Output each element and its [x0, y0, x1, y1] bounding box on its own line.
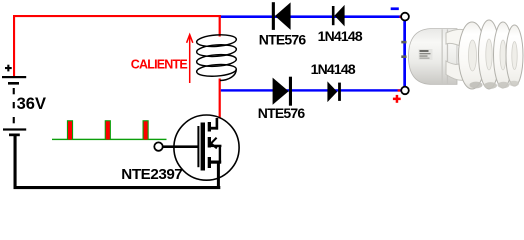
svg-text:NTE2397: NTE2397	[121, 166, 182, 183]
svg-text:36V: 36V	[17, 95, 46, 113]
svg-text:NTE576: NTE576	[258, 105, 306, 121]
svg-text:1N4148: 1N4148	[311, 61, 356, 77]
svg-text:CALIENTE: CALIENTE	[131, 58, 188, 72]
svg-text:NTE576: NTE576	[259, 32, 307, 48]
svg-text:1N4148: 1N4148	[318, 28, 363, 44]
